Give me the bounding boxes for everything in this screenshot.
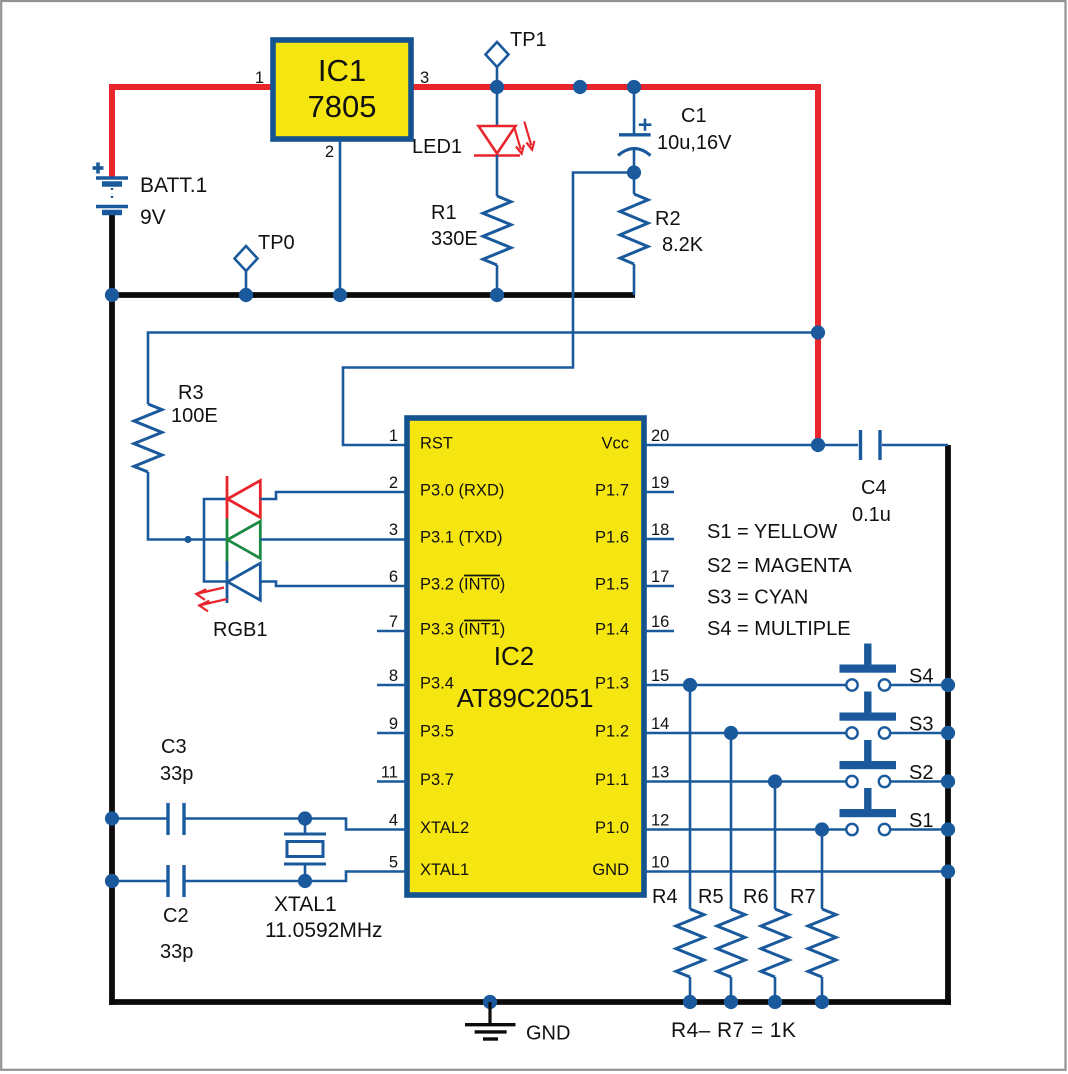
svg-text:7805: 7805 bbox=[308, 89, 377, 124]
LED RGB1 green chip bbox=[226, 519, 229, 562]
node GND pin junction on rail bbox=[941, 864, 955, 878]
wire C4 to right ground rail bbox=[882, 444, 948, 447]
svg-text:P3.4: P3.4 bbox=[420, 675, 454, 693]
battery BATT.1 plus sign bbox=[93, 166, 104, 170]
capacitor C3 bbox=[166, 803, 169, 835]
svg-text:S4: S4 bbox=[909, 666, 933, 688]
svg-text:1: 1 bbox=[389, 427, 398, 445]
svg-text:0.1u: 0.1u bbox=[852, 504, 891, 526]
svg-text:XTAL1: XTAL1 bbox=[420, 861, 469, 879]
LED LED1 symbol bbox=[479, 126, 516, 154]
wire IC2 GND pin10 to right rail bbox=[644, 870, 948, 873]
node small junction on RGB common bbox=[184, 536, 191, 543]
svg-text:R2: R2 bbox=[655, 208, 681, 230]
wire R6 to ground bbox=[774, 977, 777, 1002]
svg-text:XTAL2: XTAL2 bbox=[420, 819, 469, 837]
svg-text:5: 5 bbox=[389, 854, 398, 872]
node TP1 junction bbox=[490, 80, 504, 94]
wire RST net from C1-R2 node to IC2 pin1 bbox=[343, 173, 634, 446]
wire C3 to XTAL2 bbox=[184, 819, 407, 830]
node R1 ground junction bbox=[490, 288, 504, 302]
resistor R4 bbox=[676, 909, 704, 977]
svg-text:8.2K: 8.2K bbox=[662, 234, 704, 256]
battery BATT.1 cells bbox=[96, 176, 128, 179]
svg-text:330E: 330E bbox=[431, 228, 478, 250]
node crystal bottom junction bbox=[298, 874, 312, 888]
pin stub 16 right bbox=[644, 630, 674, 633]
svg-text:17: 17 bbox=[651, 568, 669, 586]
svg-text:R7: R7 bbox=[790, 886, 816, 908]
LED RGB1 blue chip bbox=[226, 561, 229, 603]
wire left rail to C3 bbox=[112, 817, 168, 820]
svg-text:RST: RST bbox=[420, 435, 453, 453]
node IC1 pin2 ground junction bbox=[333, 288, 347, 302]
node crystal top junction bbox=[298, 811, 312, 825]
svg-text:GND: GND bbox=[592, 861, 629, 879]
switch S2 bbox=[644, 780, 846, 783]
switch S4 bbox=[644, 684, 846, 687]
svg-text:11.0592MHz: 11.0592MHz bbox=[265, 919, 383, 942]
wire R5 drop bbox=[730, 733, 733, 909]
svg-text:R6: R6 bbox=[743, 886, 769, 908]
svg-text:TP1: TP1 bbox=[510, 29, 547, 51]
svg-text:3: 3 bbox=[389, 521, 398, 539]
wire red +5V from IC1 pin3 to the right and down to Vcc node bbox=[411, 87, 818, 445]
pin stub 9 left bbox=[377, 732, 407, 735]
wire +5V rail to C1 bbox=[633, 87, 636, 135]
svg-text:P3.2 (INT0): P3.2 (INT0) bbox=[420, 576, 505, 594]
svg-text:IC1: IC1 bbox=[318, 53, 366, 88]
svg-text:19: 19 bbox=[651, 474, 669, 492]
wire black bottom ground bus bbox=[109, 999, 951, 1005]
op-amp IC2 AT89C2051 box bbox=[407, 418, 644, 895]
wire left rail to C2 bbox=[112, 880, 168, 883]
svg-text:P3.3 (INT1): P3.3 (INT1) bbox=[420, 621, 505, 639]
svg-text:S4 = MULTIPLE: S4 = MULTIPLE bbox=[707, 618, 851, 640]
wire TP1 node to LED1 bbox=[496, 87, 499, 126]
svg-text:C3: C3 bbox=[161, 736, 187, 758]
op-amp IC1 7805 regulator box bbox=[273, 40, 411, 139]
svg-text:XTAL1: XTAL1 bbox=[274, 893, 337, 916]
wire RGB1 red anode to IC2 pin2 bbox=[260, 492, 407, 499]
svg-text:16: 16 bbox=[651, 613, 669, 631]
svg-text:9V: 9V bbox=[140, 206, 166, 229]
svg-text:S2: S2 bbox=[909, 762, 933, 784]
svg-text:IC2: IC2 bbox=[494, 641, 534, 671]
wire +5V node to R3 bbox=[148, 333, 818, 405]
node C3 rail junction bbox=[105, 811, 119, 825]
svg-text:GND: GND bbox=[526, 1023, 570, 1045]
LED RGB1 red chip bbox=[226, 476, 229, 519]
wire R7 drop bbox=[821, 830, 824, 910]
svg-text:14: 14 bbox=[651, 715, 669, 733]
node extra junction on +5V rail bbox=[573, 80, 587, 94]
svg-text:100E: 100E bbox=[171, 405, 218, 427]
svg-text:P1.3: P1.3 bbox=[595, 675, 629, 693]
resistor R1 bbox=[483, 196, 511, 265]
node R5 junction bbox=[724, 726, 738, 740]
pin stub 7 left bbox=[377, 630, 407, 633]
svg-text:C2: C2 bbox=[163, 905, 189, 927]
svg-text:P3.7: P3.7 bbox=[420, 771, 454, 789]
node TP1 test point diamond bbox=[486, 42, 509, 67]
pin stub 8 left bbox=[377, 684, 407, 687]
svg-text:P3.5: P3.5 bbox=[420, 723, 454, 741]
svg-text:RGB1: RGB1 bbox=[213, 619, 267, 641]
node battery to ground bus junction bbox=[105, 288, 119, 302]
svg-text:R1: R1 bbox=[431, 202, 457, 224]
pin stub 18 right bbox=[644, 538, 674, 541]
node R4 ground junction bbox=[683, 995, 697, 1009]
svg-text:S2 = MAGENTA: S2 = MAGENTA bbox=[707, 555, 852, 577]
node switch to rail junction bbox=[941, 726, 955, 740]
node +5V Vcc junction bbox=[811, 438, 825, 452]
svg-text:10u,16V: 10u,16V bbox=[657, 132, 732, 154]
resistor R6 bbox=[761, 909, 789, 977]
svg-text:33p: 33p bbox=[160, 941, 193, 963]
svg-text:C1: C1 bbox=[681, 105, 707, 127]
svg-text:1: 1 bbox=[255, 69, 264, 87]
svg-text:7: 7 bbox=[389, 613, 398, 631]
wire R2 to ground bus bbox=[633, 264, 636, 295]
svg-text:10: 10 bbox=[651, 854, 669, 872]
wire black right ground rail bbox=[945, 445, 951, 1005]
svg-text:R3: R3 bbox=[178, 382, 204, 404]
pin stub 19 right bbox=[644, 491, 674, 494]
wire R3 to RGB1 common bbox=[148, 472, 227, 540]
svg-text:P1.6: P1.6 bbox=[595, 529, 629, 547]
LED1 light arrows bbox=[514, 122, 535, 154]
svg-text:20: 20 bbox=[651, 427, 669, 445]
node R5 ground junction bbox=[724, 995, 738, 1009]
wire LED1 to R1 bbox=[496, 155, 499, 196]
wire black upper ground bus bbox=[109, 292, 635, 298]
svg-text:P1.1: P1.1 bbox=[595, 771, 629, 789]
resistor R3 bbox=[134, 404, 162, 472]
wire red +9V rail from battery to IC1 and +5V rail to Vcc bbox=[112, 87, 273, 178]
svg-text:R4: R4 bbox=[652, 886, 678, 908]
svg-text:P3.1 (TXD): P3.1 (TXD) bbox=[420, 529, 503, 547]
node C1 junction on +5V rail bbox=[627, 80, 641, 94]
pin stub 11 left bbox=[377, 780, 407, 783]
node +5V to R3 junction bbox=[811, 325, 825, 339]
svg-text:S1: S1 bbox=[909, 810, 933, 832]
wire node to R2 bbox=[633, 173, 636, 195]
capacitor C4 bbox=[859, 430, 862, 460]
wire R1 to ground bus bbox=[496, 265, 499, 295]
svg-text:TP0: TP0 bbox=[258, 232, 295, 254]
wire R5 to ground bbox=[730, 977, 733, 1002]
pin stub 17 right bbox=[644, 585, 674, 588]
node switch to rail junction bbox=[941, 822, 955, 836]
node R7 ground junction bbox=[815, 995, 829, 1009]
svg-text:R4– R7 = 1K: R4– R7 = 1K bbox=[671, 1019, 796, 1042]
svg-text:AT89C2051: AT89C2051 bbox=[457, 683, 594, 713]
node C1-R2-RST junction bbox=[627, 165, 641, 179]
svg-text:P1.0: P1.0 bbox=[595, 819, 629, 837]
node switch to rail junction bbox=[941, 678, 955, 692]
svg-text:Vcc: Vcc bbox=[601, 435, 629, 453]
wire R4 to ground bbox=[689, 977, 692, 1002]
wire IC1 pin2 to ground bus bbox=[339, 139, 342, 295]
node R6 junction bbox=[768, 774, 782, 788]
wire R4 drop bbox=[689, 685, 692, 909]
svg-text:8: 8 bbox=[389, 667, 398, 685]
svg-text:2: 2 bbox=[389, 474, 398, 492]
svg-text:S3: S3 bbox=[909, 714, 933, 736]
svg-text:3: 3 bbox=[420, 69, 429, 87]
svg-text:P1.4: P1.4 bbox=[595, 621, 629, 639]
svg-text:12: 12 bbox=[651, 812, 669, 830]
svg-text:33p: 33p bbox=[160, 763, 193, 785]
wire Vcc pin20 to C4 bbox=[644, 444, 858, 447]
node R6 ground junction bbox=[768, 995, 782, 1009]
wire C2 to XTAL1 bbox=[184, 872, 407, 882]
svg-text:S1 = YELLOW: S1 = YELLOW bbox=[707, 521, 837, 543]
resistor R7 bbox=[808, 909, 836, 977]
svg-text:P3.0 (RXD): P3.0 (RXD) bbox=[420, 482, 504, 500]
svg-text:13: 13 bbox=[651, 764, 669, 782]
wire black ground left rail bbox=[109, 214, 115, 1005]
svg-text:2: 2 bbox=[325, 143, 334, 161]
svg-text:S3 = CYAN: S3 = CYAN bbox=[707, 587, 808, 609]
RGB1 light arrows bbox=[196, 588, 227, 612]
ground symbol bbox=[483, 995, 497, 1009]
node R4 junction bbox=[683, 678, 697, 692]
wire RGB1 blue anode to IC2 pin6 bbox=[260, 582, 407, 587]
node switch to rail junction bbox=[941, 774, 955, 788]
svg-text:6: 6 bbox=[389, 568, 398, 586]
svg-text:P1.5: P1.5 bbox=[595, 576, 629, 594]
RGB1 cathode bracket bbox=[204, 499, 227, 582]
node TP0 test point diamond bbox=[235, 246, 258, 271]
switch S3 bbox=[644, 732, 846, 735]
resistor R5 bbox=[717, 909, 745, 977]
wire RGB1 green anode to IC2 pin3 bbox=[260, 538, 407, 541]
wire R7 to ground bbox=[821, 977, 824, 1002]
svg-text:P1.2: P1.2 bbox=[595, 723, 629, 741]
svg-text:R5: R5 bbox=[698, 886, 724, 908]
svg-text:15: 15 bbox=[651, 667, 669, 685]
svg-text:P1.7: P1.7 bbox=[595, 482, 629, 500]
capacitor C2 bbox=[166, 865, 169, 897]
svg-text:C4: C4 bbox=[861, 477, 887, 499]
svg-text:4: 4 bbox=[389, 812, 398, 830]
wire C1 to R2 node bbox=[633, 150, 636, 174]
capacitor C1 polarized bbox=[619, 133, 651, 136]
svg-text:11: 11 bbox=[381, 764, 398, 782]
node R7 junction bbox=[815, 822, 829, 836]
svg-text:LED1: LED1 bbox=[412, 136, 462, 158]
crystal XTAL1 symbol bbox=[304, 819, 307, 835]
wire R6 drop bbox=[774, 782, 777, 910]
svg-text:18: 18 bbox=[651, 521, 669, 539]
resistor R2 bbox=[620, 194, 648, 264]
svg-text:BATT.1: BATT.1 bbox=[140, 174, 207, 197]
svg-text:9: 9 bbox=[389, 715, 398, 733]
node TP0 ground junction bbox=[239, 288, 253, 302]
node C2 rail junction bbox=[105, 874, 119, 888]
switch S1 bbox=[644, 828, 846, 831]
